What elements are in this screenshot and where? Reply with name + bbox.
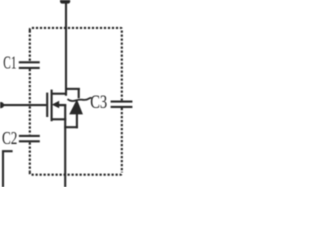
transistor gate bar bbox=[46, 93, 48, 117]
transistor channel bar bbox=[51, 90, 53, 122]
node gate terminal dot bbox=[0, 102, 4, 108]
svg-text:C3: C3 bbox=[90, 92, 107, 113]
diode cathode lead bbox=[78, 88, 80, 98]
wire dashed right lower (C3 to bottom) bbox=[121, 108, 123, 172]
wire drain vertical (top) bbox=[65, 0, 67, 96]
wire dashed top (drain net) bbox=[30, 28, 122, 31]
wire dashed right upper (to C3) bbox=[121, 31, 123, 101]
box corner component stub (bottom-left) bbox=[3, 151, 13, 187]
wire dashed left C1-to-gate bbox=[29, 69, 31, 104]
capacitor C2 plates bbox=[19, 135, 40, 137]
diode cathode curve bbox=[68, 98, 92, 101]
wire top rail to diode cathode bbox=[65, 88, 80, 90]
node top terminal (cropped junction dot) bbox=[60, 0, 70, 4]
wire dashed left upper (to C1) bbox=[29, 31, 31, 62]
transistor body arrow bbox=[52, 101, 59, 108]
svg-text:C2: C2 bbox=[2, 128, 17, 148]
svg-text:C1: C1 bbox=[3, 53, 16, 73]
capacitor C1 plates bbox=[19, 61, 40, 63]
wire dashed bottom (source net) bbox=[30, 172, 122, 175]
capacitor C3 plates bbox=[111, 101, 133, 103]
wire drain stub to channel bbox=[51, 93, 67, 95]
diode anode lead bbox=[76, 114, 78, 129]
wire gate lead horizontal bbox=[0, 104, 46, 106]
wire body lead bbox=[59, 104, 67, 106]
diode D body triangle bbox=[69, 99, 83, 114]
wire dashed left gate-to-C2 bbox=[29, 106, 31, 134]
wire bottom rail (source node) bbox=[64, 126, 78, 128]
wire dashed left C2-to-bottom bbox=[29, 143, 31, 172]
wire source/body vertical down to bottom edge bbox=[64, 104, 66, 187]
wire source stub to channel bbox=[51, 118, 66, 120]
